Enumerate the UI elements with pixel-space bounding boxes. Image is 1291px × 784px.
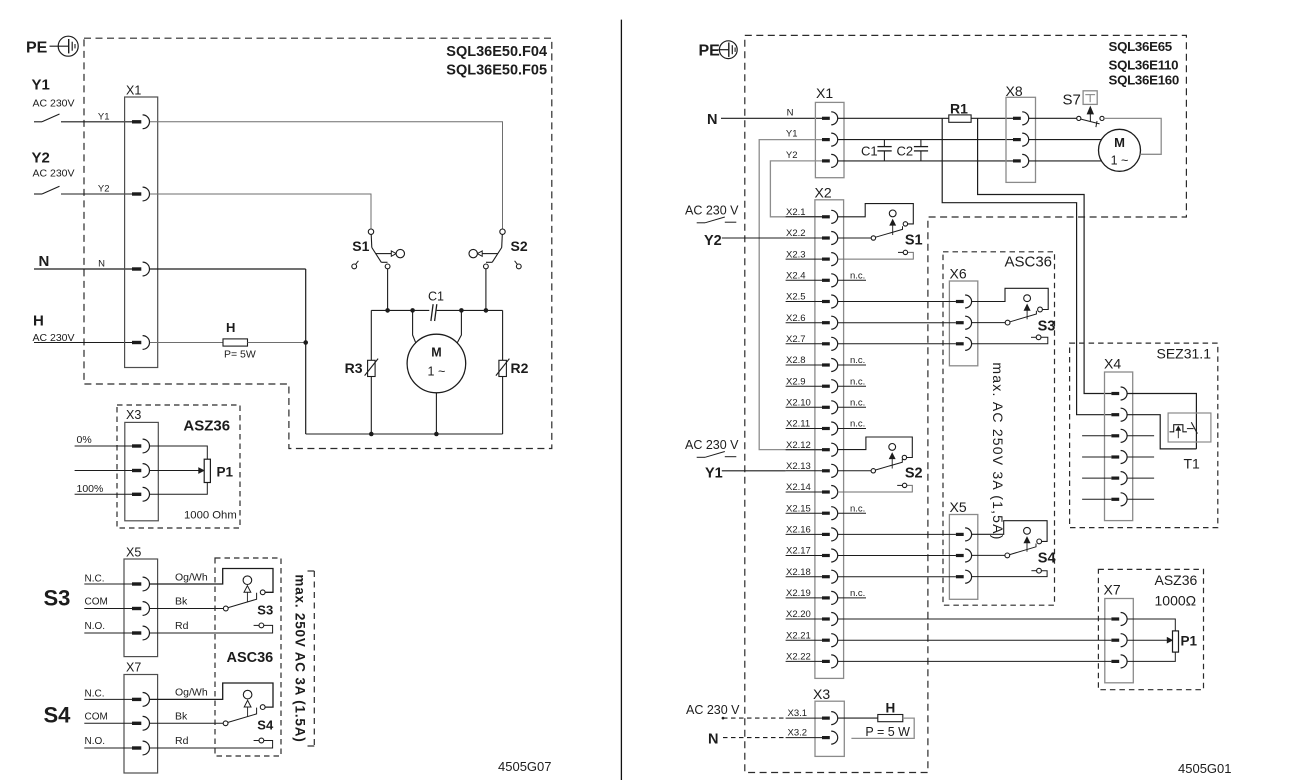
X5 row labels N.C. COM N.O. — [85, 573, 108, 632]
svg-text:S7: S7 — [1063, 92, 1081, 109]
input Y1 with AC 230V switch — [32, 77, 133, 122]
SEZ31.1 dashed box — [1070, 343, 1218, 527]
X2.18 socket and lead — [786, 567, 838, 583]
svg-text:AC 230 V: AC 230 V — [686, 703, 740, 717]
input Y2 with AC 230V switch — [32, 150, 133, 195]
X2.9 socket and lead — [786, 376, 866, 392]
switch S2 right panel — [838, 437, 923, 492]
svg-text:X8: X8 — [1006, 83, 1023, 99]
svg-text:X5: X5 — [126, 546, 141, 560]
wire labels Og/Wh Bk Rd for S3 — [175, 571, 208, 632]
varistor R3 — [345, 310, 379, 434]
svg-text:R2: R2 — [511, 360, 529, 376]
svg-text:4505G07: 4505G07 — [498, 759, 552, 774]
motor return wire via S7 — [1104, 118, 1161, 154]
svg-text:COM: COM — [85, 597, 108, 608]
svg-text:COM: COM — [85, 712, 108, 723]
X2.17 socket and lead — [786, 546, 838, 562]
svg-text:1 ~: 1 ~ — [1111, 154, 1129, 168]
motor M right panel — [1029, 129, 1141, 171]
svg-text:AC 230 V: AC 230 V — [685, 438, 739, 452]
X2.20 socket and lead — [786, 609, 838, 625]
wire X2.17 to X5 — [838, 555, 956, 557]
auxiliary switch S3 right panel — [972, 288, 1056, 344]
wire X1 N to right vertical — [150, 268, 306, 270]
input AC 230 V bottom right panel — [686, 703, 786, 719]
connector X1 right panel — [786, 85, 844, 178]
X2.8 socket and lead — [786, 355, 866, 371]
X7 input wires — [84, 699, 132, 748]
wire X2.18 to X5 — [838, 576, 956, 578]
svg-text:AC 230V: AC 230V — [33, 98, 75, 110]
page divider line — [620, 20, 622, 780]
svg-text:S4: S4 — [257, 718, 274, 733]
connector X3 left panel — [125, 408, 159, 521]
svg-text:AC 230V: AC 230V — [33, 168, 75, 180]
X2.3 socket and lead — [786, 249, 838, 265]
input 0% wire — [75, 434, 132, 446]
svg-text:N: N — [707, 112, 717, 128]
left panel title SQL36E50.F04 / SQL36E50.F05 — [446, 44, 547, 79]
connector X8 — [1006, 83, 1036, 182]
X2.21 socket and lead — [786, 630, 838, 646]
svg-text:Y1: Y1 — [32, 77, 50, 94]
auxiliary switch S4 left panel — [150, 683, 274, 748]
X2.1 socket and lead — [786, 207, 838, 223]
svg-text:X7: X7 — [126, 661, 141, 675]
capacitor C2 right panel — [897, 140, 929, 161]
svg-text:PE: PE — [699, 43, 721, 60]
X2.5 socket and lead — [786, 292, 838, 308]
right panel dashed enclosure SQL36E65 — [745, 35, 1187, 772]
heater resistor H with label P= 5W — [150, 320, 306, 361]
svg-text:ASC36: ASC36 — [227, 650, 274, 666]
wire X1 to X8 row Y2 — [838, 160, 1013, 162]
X2.11 socket and lead — [786, 419, 866, 435]
svg-text:SEZ31.1: SEZ31.1 — [1157, 346, 1212, 362]
svg-text:P= 5W: P= 5W — [224, 349, 256, 361]
svg-text:H: H — [886, 701, 896, 716]
connector X3 right panel — [786, 686, 845, 756]
connector X5 left panel — [124, 546, 158, 657]
wire X2.20 to X7 — [838, 618, 1112, 620]
svg-text:C1: C1 — [861, 144, 878, 159]
svg-text:Y1: Y1 — [98, 111, 110, 122]
X5 input wires — [84, 584, 132, 633]
switch S2 left panel — [469, 229, 528, 310]
svg-text:Y2: Y2 — [704, 233, 722, 249]
svg-text:Og/Wh: Og/Wh — [175, 571, 208, 583]
svg-text:H: H — [226, 320, 235, 335]
svg-text:X4: X4 — [1104, 356, 1121, 372]
svg-text:1 ~: 1 ~ — [428, 365, 446, 379]
switch S1 left panel — [352, 229, 405, 310]
svg-text:Y2: Y2 — [32, 150, 50, 167]
svg-text:S4: S4 — [1038, 551, 1056, 567]
X2.13 socket and lead — [786, 461, 838, 477]
svg-text:R1: R1 — [950, 101, 968, 117]
svg-text:SQL36E65: SQL36E65 — [1109, 39, 1173, 54]
svg-text:1000 Ohm: 1000 Ohm — [184, 510, 237, 522]
svg-text:S3: S3 — [1038, 319, 1056, 335]
connector X2 right panel — [815, 185, 844, 679]
svg-text:X1: X1 — [816, 85, 833, 101]
svg-text:Y2: Y2 — [786, 150, 798, 161]
input H AC 230V — [33, 313, 133, 345]
svg-text:SQL36E110: SQL36E110 — [1109, 57, 1179, 72]
svg-text:P = 5 W: P = 5 W — [865, 725, 910, 739]
svg-text:X3: X3 — [813, 686, 830, 702]
svg-text:S3: S3 — [44, 586, 71, 611]
input N right panel — [707, 112, 822, 128]
svg-text:Og/Wh: Og/Wh — [175, 686, 208, 698]
X2.12 socket and lead — [786, 440, 838, 456]
svg-text:Y2: Y2 — [98, 184, 110, 195]
X2.15 socket and lead — [786, 503, 866, 519]
input N bottom right panel — [708, 732, 786, 748]
wire X1 to X8 row Y1 — [838, 139, 1013, 141]
svg-text:X7: X7 — [1104, 582, 1121, 598]
svg-text:X5: X5 — [950, 499, 967, 515]
X2.10 socket and lead — [786, 398, 866, 414]
svg-text:X3: X3 — [126, 408, 141, 422]
svg-text:X3.2: X3.2 — [788, 727, 808, 738]
svg-text:N: N — [98, 259, 105, 270]
svg-text:Bk: Bk — [175, 711, 188, 723]
svg-text:ASZ36: ASZ36 — [183, 418, 230, 435]
motor top rail with junctions — [371, 308, 502, 313]
X2.6 socket and lead — [786, 313, 838, 329]
svg-text:0%: 0% — [77, 434, 92, 446]
svg-text:S1: S1 — [905, 233, 923, 249]
svg-text:X3.1: X3.1 — [788, 708, 808, 719]
heater resistor H right panel — [838, 701, 915, 740]
wire from N to X4 socket 2 — [942, 118, 1111, 414]
svg-text:H: H — [33, 313, 44, 330]
svg-text:Rd: Rd — [175, 620, 189, 632]
svg-text:SQL36E160: SQL36E160 — [1109, 73, 1179, 88]
svg-text:AC 230 V: AC 230 V — [685, 204, 739, 218]
svg-text:Rd: Rd — [175, 735, 189, 747]
switch S1 right panel — [838, 204, 923, 260]
wire X2.16 to X5 — [838, 533, 956, 535]
svg-text:100%: 100% — [77, 483, 104, 495]
resistor R1 — [949, 101, 1013, 123]
svg-text:S2: S2 — [905, 466, 923, 482]
svg-text:S2: S2 — [511, 238, 528, 254]
svg-text:N: N — [787, 107, 794, 118]
connector X6 — [949, 266, 977, 366]
X2.19 socket and lead — [786, 588, 866, 604]
capacitor C1 right panel — [861, 140, 892, 161]
varistor R2 — [496, 310, 529, 434]
X2.22 socket and lead — [786, 652, 838, 668]
wire X1 Y1 to switch S2 — [150, 122, 503, 229]
wire X4.1 to timer T1 — [1127, 394, 1196, 449]
input N — [34, 253, 132, 270]
svg-text:Y1: Y1 — [786, 129, 798, 140]
svg-text:S1: S1 — [352, 238, 369, 254]
grey wire X1-Y1 to X2.12 — [759, 140, 822, 450]
X2.16 socket and lead — [786, 525, 838, 541]
svg-text:ASZ36: ASZ36 — [1155, 572, 1198, 588]
ASC36 dashed box right panel — [943, 252, 1055, 605]
motor bottom rail with junctions — [306, 432, 503, 437]
wire X2.5 to X6 — [838, 301, 956, 303]
svg-text:max. 250V AC 3A (1.5A): max. 250V AC 3A (1.5A) — [293, 574, 308, 742]
timer T1 — [1168, 413, 1211, 472]
svg-text:M: M — [431, 346, 441, 360]
svg-text:Bk: Bk — [175, 596, 188, 608]
svg-text:1000Ω: 1000Ω — [1155, 593, 1197, 609]
wire X2.6 to X6 — [838, 322, 956, 324]
rating bracket left panel — [308, 571, 315, 746]
wire X2.21 to X7 — [838, 639, 1112, 641]
svg-text:SQL36E50.F04: SQL36E50.F04 — [446, 44, 547, 60]
potentiometer P1 right panel — [1127, 619, 1197, 661]
svg-text:P1: P1 — [217, 465, 234, 480]
svg-text:M: M — [1114, 135, 1125, 150]
svg-text:X1: X1 — [126, 84, 141, 98]
left panel dashed enclosure SQL36E50 — [84, 38, 552, 448]
wire X2.7 to X6 — [838, 343, 956, 345]
svg-text:X6: X6 — [950, 266, 967, 282]
svg-text:SQL36E50.F05: SQL36E50.F05 — [446, 63, 547, 79]
svg-text:Y1: Y1 — [705, 465, 723, 481]
vertical N wire down to bottom rail — [305, 269, 307, 434]
input 100% wire — [75, 483, 132, 495]
svg-text:S3: S3 — [257, 603, 273, 618]
connector X7 left panel — [124, 661, 158, 774]
svg-text:N.C.: N.C. — [85, 689, 105, 700]
svg-text:N.O.: N.O. — [85, 736, 106, 747]
svg-text:C2: C2 — [897, 144, 914, 159]
X7 row labels N.C. COM N.O. — [85, 689, 108, 748]
svg-text:T1: T1 — [1184, 456, 1201, 472]
svg-text:S4: S4 — [44, 703, 72, 728]
input Y1 AC 230 V right panel — [685, 438, 786, 481]
ASZ36 dashed box — [117, 405, 240, 528]
grey wire X1-Y2 to X2.1 — [770, 161, 822, 217]
svg-text:N: N — [708, 732, 718, 748]
left panel PE terminal — [26, 36, 78, 56]
auxiliary switch S3 left panel — [150, 569, 273, 634]
thermal switch S7 — [1029, 91, 1104, 127]
junction dot H/N wire — [303, 340, 308, 345]
wire labels Og/Wh Bk Rd for S4 — [175, 686, 208, 747]
svg-text:R3: R3 — [345, 360, 363, 376]
input Y2 AC 230 V right panel — [685, 204, 786, 250]
svg-text:X2: X2 — [815, 185, 832, 201]
capacitor C1 left panel — [428, 290, 444, 322]
connector X7 right panel — [1104, 582, 1134, 683]
X2.14 socket and lead — [786, 482, 838, 498]
ASC36 dashed box left panel — [215, 558, 281, 756]
svg-text:C1: C1 — [428, 290, 444, 304]
svg-text:N: N — [39, 253, 50, 270]
right panel titles SQL36E65 SQL36E110 SQL36E160 — [1109, 39, 1179, 88]
X2.2 socket and lead — [786, 228, 838, 244]
wire X4.2 to timer T1 — [1127, 415, 1196, 449]
connector X5 right panel — [949, 499, 977, 599]
svg-text:N.O.: N.O. — [85, 621, 106, 632]
wire X1 to X8 row N — [838, 117, 949, 119]
wire X1 Y2 to switch S1 — [150, 194, 371, 229]
input mid wire — [75, 470, 132, 472]
svg-text:ASC36: ASC36 — [1005, 254, 1053, 271]
svg-text:4505G01: 4505G01 — [1178, 761, 1232, 776]
auxiliary switch S4 right panel — [972, 521, 1056, 577]
X2.4 socket and lead — [786, 271, 866, 287]
connector X1 left panel — [98, 84, 158, 368]
wire from R1 to X4 socket 1 — [978, 118, 1112, 393]
svg-text:P1: P1 — [1181, 634, 1198, 649]
ASZ36 dashed box right panel — [1098, 569, 1203, 689]
potentiometer P1 left panel — [150, 446, 234, 494]
svg-text:max. AC 250V 3A (1,5A): max. AC 250V 3A (1,5A) — [990, 362, 1006, 540]
X2.7 socket and lead — [786, 334, 838, 350]
svg-text:PE: PE — [26, 40, 48, 57]
wire X2.22 to X7 — [838, 660, 1112, 662]
svg-text:N.C.: N.C. — [85, 573, 105, 584]
motor M 1~ left panel — [407, 310, 466, 434]
X4 socket stubs — [1082, 436, 1154, 500]
right panel PE terminal — [699, 41, 738, 60]
connector X4 — [1104, 356, 1133, 521]
